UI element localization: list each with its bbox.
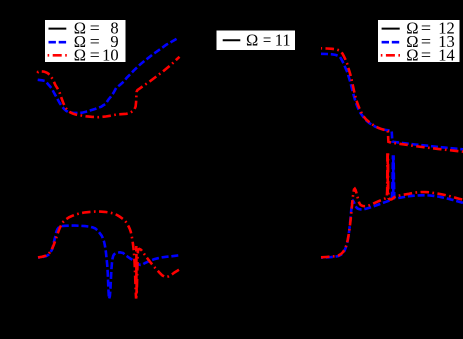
svg-text:=: = bbox=[263, 31, 271, 50]
svg-text:14: 14 bbox=[438, 46, 455, 65]
svg-text:11: 11 bbox=[275, 31, 291, 50]
svg-text:Ω: Ω bbox=[246, 31, 258, 50]
svg-text:10: 10 bbox=[102, 46, 119, 65]
svg-text:=: = bbox=[90, 46, 100, 65]
svg-text:Ω: Ω bbox=[406, 46, 418, 65]
svg-text:=: = bbox=[421, 46, 431, 65]
svg-text:Ω: Ω bbox=[74, 46, 86, 65]
